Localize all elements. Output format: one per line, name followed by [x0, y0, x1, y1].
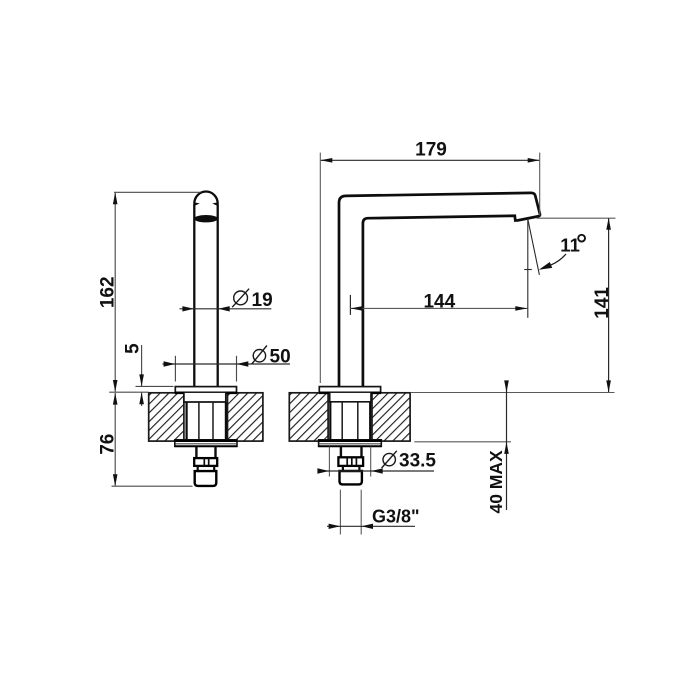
dim 162 arrow down — [113, 380, 118, 392]
dim d50 line — [163, 363, 291, 365]
dim d33.5 ext line right — [370, 447, 372, 477]
left mounting neck — [184, 393, 226, 402]
dim 76 arrow up — [113, 393, 118, 405]
angle ref vertical line — [527, 219, 529, 318]
left nut rib line 2 — [208, 459, 210, 466]
left lower neck left — [197, 466, 199, 471]
left shank outer right — [225, 402, 227, 440]
right flange bottom bold line — [319, 392, 382, 395]
left flange bottom bold line — [175, 392, 238, 395]
right shank inner left — [341, 402, 343, 440]
dim 40max ext line — [414, 441, 511, 443]
dim d33.5 arrow left — [371, 468, 383, 473]
dim 144 arrow left — [351, 306, 363, 311]
svg-text:11: 11 — [560, 234, 580, 255]
svg-text:76: 76 — [97, 434, 118, 455]
dim 162 line — [114, 193, 116, 392]
dim 179 arrow left — [320, 158, 332, 163]
dim 144 line — [350, 307, 527, 309]
dim 76 extension line bottom — [112, 485, 193, 487]
svg-text:144: 144 — [423, 292, 455, 313]
dim 144 left tick — [349, 295, 351, 315]
svg-text:179: 179 — [415, 139, 447, 160]
dim g38 arrow left — [362, 524, 374, 529]
handle dome cap — [194, 192, 217, 204]
dim d50 diameter symbol — [253, 350, 265, 362]
counter right slab right piece — [372, 393, 410, 441]
dim d50 arrow left — [237, 361, 249, 366]
dim 162 arrow up — [113, 192, 118, 204]
dim d33.5 arrow right — [317, 468, 329, 473]
dim 179 ext line left — [319, 153, 321, 383]
left shank inner left — [198, 402, 200, 440]
svg-text:G3/8": G3/8" — [372, 507, 420, 527]
dim d50 arrow right — [164, 361, 176, 366]
svg-text:19: 19 — [252, 290, 273, 311]
dim d50 ext line right — [236, 356, 238, 382]
left ribbed nut — [194, 458, 217, 466]
counter left slab right piece — [228, 393, 263, 441]
dim 40max arrow down — [504, 380, 509, 392]
handle cylinder right edge — [217, 204, 219, 387]
left lower tube right — [214, 446, 216, 458]
dim 40max arrow up — [504, 442, 509, 454]
dim 141 line — [608, 219, 610, 393]
left washer mid line — [176, 443, 237, 445]
left washer bottom line — [175, 445, 237, 447]
svg-text:33.5: 33.5 — [399, 450, 436, 471]
dim d19 line — [180, 308, 272, 310]
dim 5 lower line — [141, 393, 143, 406]
left end cap — [195, 471, 217, 486]
dim 76 arrow down — [113, 474, 118, 486]
left shank outer left — [186, 402, 188, 440]
counter left slab left piece — [149, 393, 184, 441]
right flange plate — [319, 387, 380, 393]
right washer plate — [319, 440, 382, 447]
handle ring band — [194, 215, 218, 222]
dim 141 ext line top — [537, 217, 616, 219]
dim d33.5 line — [318, 470, 434, 472]
dim d33.5 ext line left — [328, 447, 330, 477]
angle leader curve — [551, 254, 567, 265]
right mounting neck — [330, 393, 371, 402]
right nut rib line 3 — [355, 458, 357, 466]
angle leader arrowhead — [539, 262, 552, 270]
dim g38 ext line right — [360, 490, 362, 535]
counter right slab left piece — [289, 393, 328, 441]
dim 162 extension line top — [114, 191, 201, 193]
dim d19 arrow left — [218, 306, 230, 311]
right lower tube left — [340, 446, 342, 457]
angle 11 deg line — [528, 219, 540, 275]
right shank outer right — [369, 402, 371, 440]
right ribbed nut — [338, 457, 363, 466]
right shank inner right — [357, 402, 359, 440]
dim 76 line — [114, 393, 116, 486]
dim 179 ext line right — [539, 153, 541, 216]
left shank inner right — [212, 402, 214, 440]
svg-text:40 MAX: 40 MAX — [486, 450, 506, 514]
svg-text:5: 5 — [122, 343, 143, 354]
svg-text:162: 162 — [97, 276, 118, 308]
dim g38 ext line left — [339, 490, 341, 535]
dim d19 diameter symbol — [234, 291, 248, 305]
left washer bold top line — [175, 440, 238, 442]
left flange plate — [175, 387, 236, 393]
left lower tube left — [195, 446, 197, 458]
dim 5 arrow up — [139, 392, 144, 404]
left washer plate — [175, 440, 237, 447]
dim g38 line — [327, 525, 415, 527]
dim 5 arrow down — [139, 374, 144, 386]
angle ref tick — [524, 269, 532, 271]
right nut rib line 1 — [346, 458, 348, 466]
dim 179 arrow right — [528, 158, 540, 163]
right lower neck left — [342, 466, 344, 471]
dim 141 ext line bottom — [411, 392, 615, 394]
right lower tube right — [360, 446, 362, 457]
svg-text:141: 141 — [592, 287, 613, 319]
dim d19 arrow right — [182, 306, 194, 311]
right washer bold top line — [318, 440, 381, 442]
right shank outer left — [329, 402, 331, 440]
dome base barb right — [212, 202, 218, 206]
flange top extension line — [136, 385, 174, 387]
dim 179 line — [321, 159, 539, 161]
dim g38 arrow right — [329, 524, 341, 529]
right washer bottom line — [319, 445, 382, 447]
dim d50 ext line left — [174, 356, 176, 382]
right washer mid line — [319, 443, 380, 445]
right end cap — [339, 471, 361, 484]
counter top extension line left — [109, 391, 148, 393]
right lower neck right — [358, 466, 360, 471]
spout body outline — [339, 193, 540, 387]
right nut rib line 2 — [351, 458, 353, 466]
svg-text:50: 50 — [270, 346, 291, 367]
dim 141 arrow up — [606, 218, 611, 230]
dim d33.5 diameter symbol — [383, 453, 395, 465]
dome base barb left — [194, 202, 200, 206]
handle cylinder left edge — [193, 204, 195, 387]
dim 141 arrow down — [606, 380, 611, 392]
dim 40max line — [506, 382, 508, 511]
left lower neck right — [213, 466, 215, 471]
dim 5 upper line — [141, 345, 143, 386]
left nut rib line 1 — [203, 459, 205, 466]
dim 144 arrow right — [515, 306, 527, 311]
